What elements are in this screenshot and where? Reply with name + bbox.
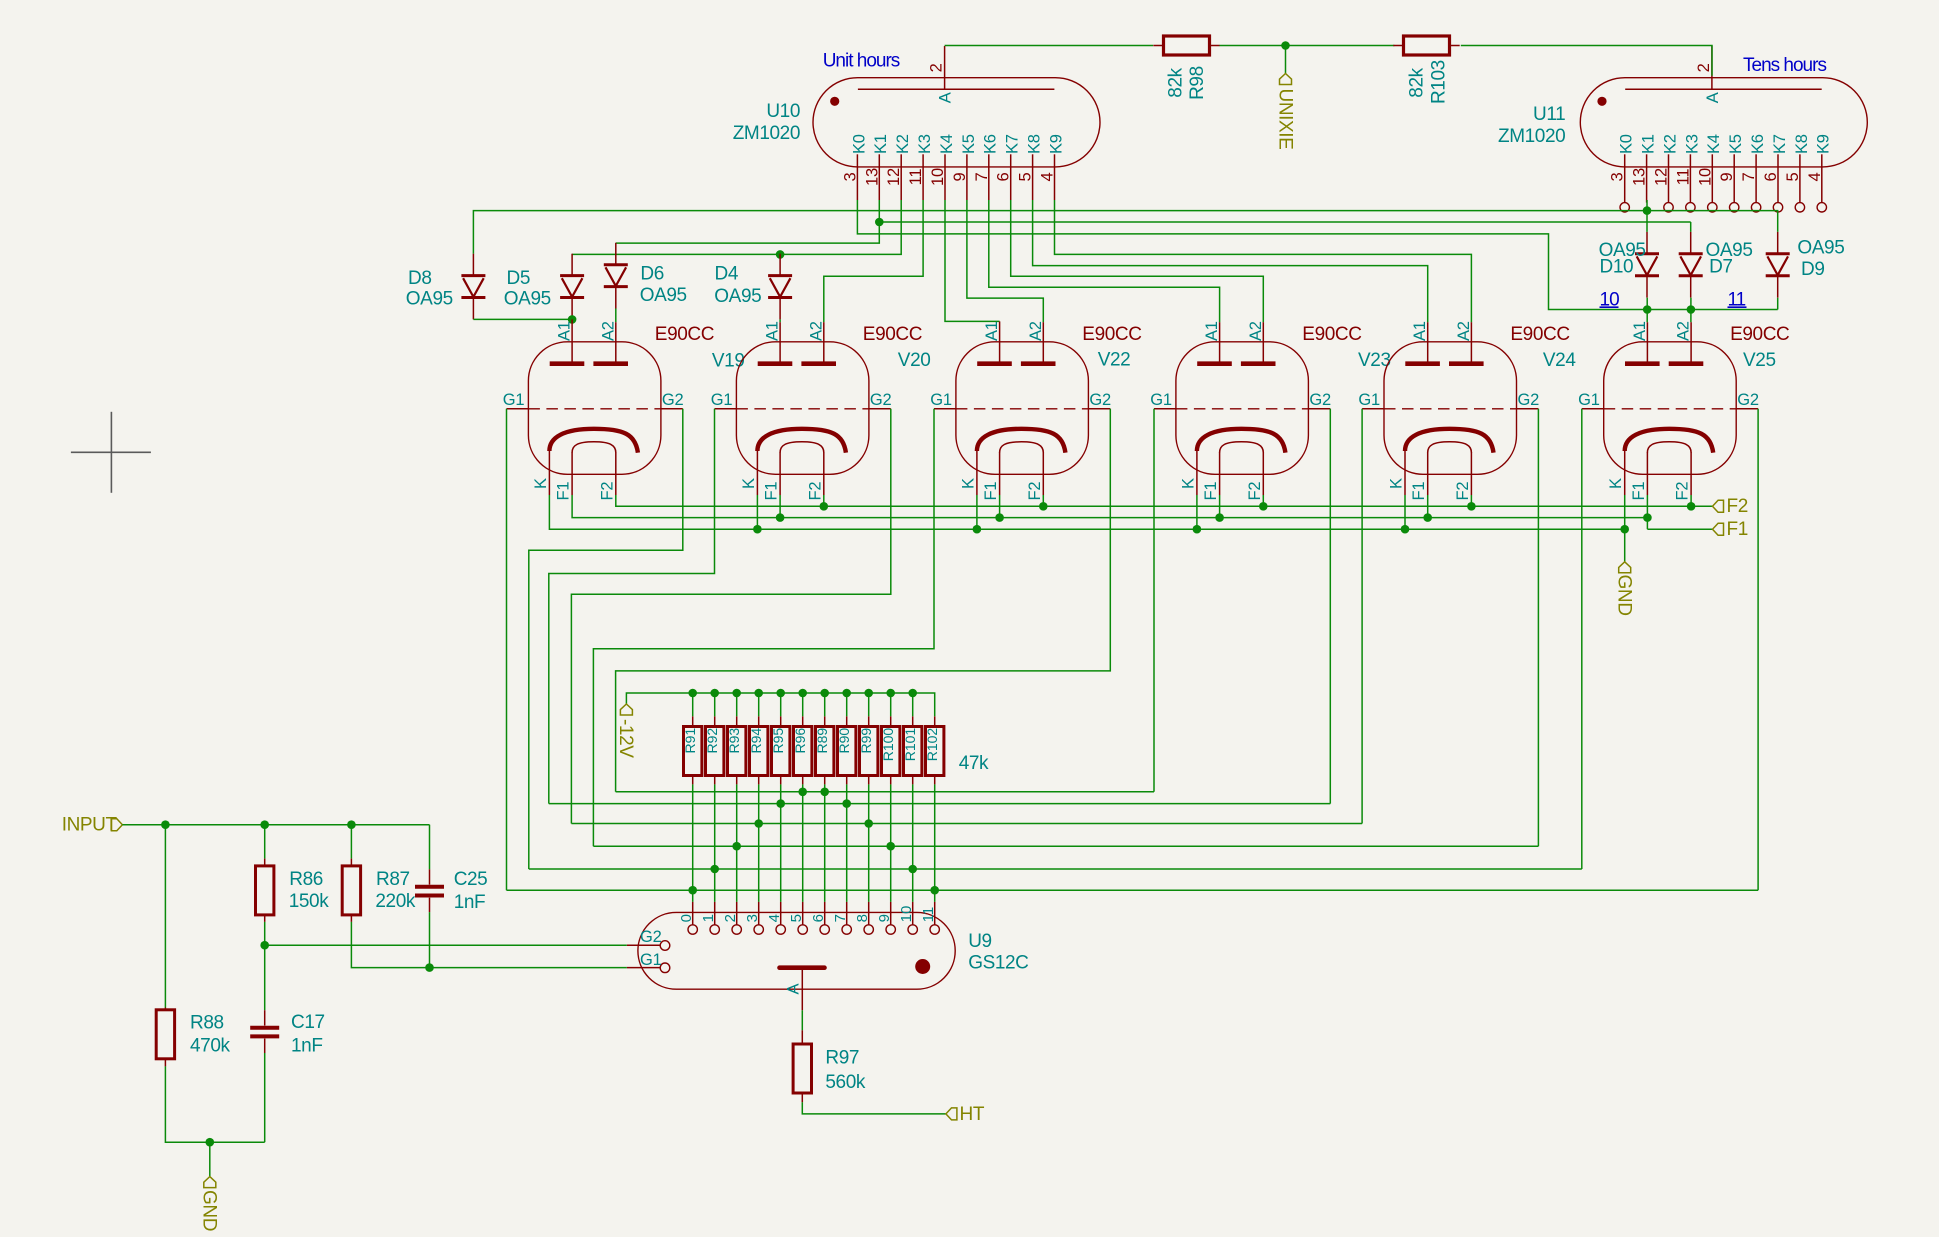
svg-text:G2: G2 bbox=[640, 928, 662, 946]
wire V20 G2 staircase to row C bbox=[571, 409, 890, 824]
wire resistor top stub bbox=[714, 693, 716, 716]
wire C17 bottom bbox=[264, 1053, 266, 1142]
wire resistor bottom to U9 pin bbox=[868, 784, 870, 902]
svg-text:R89: R89 bbox=[814, 728, 830, 754]
svg-text:V24: V24 bbox=[1543, 350, 1576, 371]
hierarchical label INPUT bbox=[111, 819, 122, 831]
svg-text:150k: 150k bbox=[289, 891, 330, 912]
junction row D R100 bbox=[886, 842, 895, 851]
wire resistor top stub bbox=[758, 693, 760, 716]
resistor R94 47k bbox=[750, 727, 768, 776]
wire resistor top stub bbox=[912, 693, 914, 716]
svg-text:K7: K7 bbox=[1004, 134, 1022, 154]
resistor R88 470k bbox=[156, 1010, 174, 1059]
svg-text:Tens hours: Tens hours bbox=[1743, 55, 1826, 76]
svg-text:D4: D4 bbox=[715, 264, 739, 285]
wire V23 G1 down to row A bbox=[1153, 409, 1155, 792]
wire down to C25 bbox=[429, 825, 431, 870]
svg-text:F1: F1 bbox=[763, 482, 781, 501]
svg-text:R103: R103 bbox=[1428, 60, 1449, 104]
svg-text:1: 1 bbox=[700, 914, 717, 922]
svg-text:A: A bbox=[1704, 92, 1722, 103]
svg-text:A1: A1 bbox=[983, 321, 1001, 341]
wire U10 K5 to V22 A2 bbox=[967, 200, 1043, 322]
svg-text:F2: F2 bbox=[1727, 496, 1748, 517]
nixie tube U11 ZM1020 "Tens hours" bbox=[1580, 46, 1867, 212]
svg-text:E90CC: E90CC bbox=[1730, 324, 1789, 345]
svg-text:K8: K8 bbox=[1793, 134, 1811, 154]
wire resistor top stub bbox=[846, 693, 848, 716]
hierarchical label GND (right) bbox=[1619, 562, 1631, 573]
svg-text:E90CC: E90CC bbox=[863, 324, 922, 345]
wire V24 K stub bbox=[1404, 495, 1406, 529]
svg-text:G2: G2 bbox=[1518, 391, 1540, 409]
junction row A R89 bbox=[820, 788, 829, 797]
wire R103 to U11 anode bbox=[1461, 46, 1712, 76]
svg-text:D10: D10 bbox=[1600, 257, 1634, 278]
resistor R98 82k bbox=[1164, 36, 1210, 55]
resistor R96 47k bbox=[794, 727, 812, 776]
svg-text:D7: D7 bbox=[1709, 257, 1733, 278]
wire resistor top stub bbox=[736, 693, 738, 716]
svg-text:R100: R100 bbox=[880, 728, 896, 762]
wire R97 to HT bbox=[802, 1102, 946, 1114]
svg-text:F2: F2 bbox=[1674, 482, 1692, 501]
svg-text:A1: A1 bbox=[1411, 321, 1429, 341]
junction V24 F2 bbox=[1467, 502, 1476, 511]
svg-text:A2: A2 bbox=[599, 321, 617, 341]
wire V20 F1 stub bbox=[779, 495, 781, 518]
svg-text:A1: A1 bbox=[764, 321, 782, 341]
svg-text:K0: K0 bbox=[1618, 134, 1636, 154]
junction D4 anode on K2 net bbox=[776, 250, 785, 259]
junction V23 F2 bbox=[1259, 502, 1268, 511]
wire resistor bottom to U9 pin bbox=[934, 784, 936, 902]
wire INPUT down to R88 bbox=[164, 825, 166, 1008]
wire R87 bottom to U9 G1 bbox=[351, 922, 626, 968]
svg-text:470k: 470k bbox=[190, 1036, 231, 1057]
junction V22 F1 bbox=[995, 513, 1004, 522]
wire V25 F2 stub bbox=[1690, 495, 1692, 506]
wire V24 F2 stub bbox=[1470, 495, 1472, 506]
resistor R101 47k bbox=[904, 727, 922, 776]
svg-text:1nF: 1nF bbox=[291, 1036, 323, 1057]
triode V25 E90CC bbox=[1578, 321, 1759, 500]
svg-text:F1: F1 bbox=[982, 482, 1000, 501]
junction D7 cathode / V25 A2 bbox=[1687, 305, 1696, 314]
svg-text:R96: R96 bbox=[792, 728, 808, 754]
svg-text:11: 11 bbox=[1674, 169, 1692, 186]
svg-text:4: 4 bbox=[1039, 172, 1057, 181]
svg-text:A2: A2 bbox=[807, 321, 825, 341]
wire R98 to R103 bbox=[1220, 45, 1395, 47]
svg-text:G2: G2 bbox=[1089, 391, 1111, 409]
svg-text:3: 3 bbox=[1609, 172, 1627, 181]
junction row E R101 bbox=[908, 865, 917, 874]
wire U10 K3 to V20 A2 bbox=[824, 200, 923, 322]
wire V25 G1 down to row E bbox=[1581, 409, 1583, 869]
junction R86/C17/G2 bbox=[260, 941, 269, 950]
junction row C R94 bbox=[754, 819, 763, 828]
svg-text:6: 6 bbox=[810, 914, 827, 922]
svg-text:K5: K5 bbox=[1727, 134, 1745, 154]
triode V23 E90CC bbox=[1150, 321, 1331, 500]
svg-text:UNIXIE: UNIXIE bbox=[1274, 89, 1295, 150]
svg-text:82k: 82k bbox=[1165, 67, 1186, 97]
triode V24 E90CC bbox=[1358, 321, 1539, 500]
hierarchical label GND bbox=[204, 1177, 216, 1188]
svg-text:R95: R95 bbox=[770, 728, 786, 754]
wire D10 cathode to V25 A1 bbox=[1646, 298, 1648, 323]
svg-text:F2: F2 bbox=[1026, 482, 1044, 501]
svg-text:K2: K2 bbox=[894, 134, 912, 154]
wire resistor bottom to U9 pin bbox=[890, 784, 892, 902]
svg-text:560k: 560k bbox=[825, 1072, 866, 1093]
wire resistor bottom to U9 pin bbox=[714, 784, 716, 902]
wire U10 K2 to D5 bbox=[572, 200, 901, 254]
wire U10 anode to R98 bbox=[945, 45, 1154, 47]
svg-text:OA95: OA95 bbox=[714, 286, 761, 307]
resistor R100 47k bbox=[882, 727, 900, 776]
nixie tube U10 ZM1020 "Unit hours" bbox=[813, 46, 1100, 200]
svg-text:R101: R101 bbox=[902, 728, 918, 762]
svg-text:G1: G1 bbox=[1358, 391, 1380, 409]
wire U10 K1 to D6 bbox=[616, 200, 880, 243]
svg-text:C17: C17 bbox=[291, 1012, 325, 1033]
svg-text:K4: K4 bbox=[938, 134, 956, 154]
resistor R93 47k bbox=[728, 727, 746, 776]
svg-text:R88: R88 bbox=[190, 1013, 224, 1034]
wire K1 net to D7 bbox=[879, 221, 1690, 223]
svg-text:R94: R94 bbox=[748, 728, 764, 754]
triode V22 E90CC bbox=[930, 321, 1111, 500]
wire V19 G1 down to row F bbox=[506, 409, 508, 890]
wire row A bbox=[616, 791, 1154, 793]
svg-text:R90: R90 bbox=[836, 728, 852, 754]
svg-text:D5: D5 bbox=[507, 268, 531, 289]
svg-text:U9: U9 bbox=[968, 931, 992, 952]
junction V24 K bbox=[1401, 525, 1410, 534]
svg-text:1nF: 1nF bbox=[454, 892, 486, 913]
wire U10 K6 to V23 A1 bbox=[989, 200, 1220, 322]
resistor R86 150k bbox=[256, 866, 274, 915]
svg-text:K4: K4 bbox=[1705, 134, 1723, 154]
junction resistor top bbox=[864, 689, 873, 698]
wire resistor top stub bbox=[780, 693, 782, 716]
junction INPUT R86 bbox=[260, 820, 269, 829]
diode D4 OA95 bbox=[768, 276, 792, 298]
wire V22 G2 staircase to row A bbox=[616, 409, 1111, 792]
svg-text:A1: A1 bbox=[1203, 321, 1221, 341]
svg-text:10: 10 bbox=[1696, 168, 1714, 186]
junction row E R92 bbox=[710, 865, 719, 874]
svg-text:E90CC: E90CC bbox=[1082, 324, 1141, 345]
wire D9 cathode stub bbox=[1777, 298, 1779, 310]
junction V25 F2 bbox=[1687, 502, 1696, 511]
hierarchical label -12V bbox=[620, 704, 632, 715]
junction UNIXIE node bbox=[1281, 41, 1290, 50]
svg-text:3: 3 bbox=[744, 914, 761, 922]
svg-text:E90CC: E90CC bbox=[655, 324, 714, 345]
wire V25 K stub to GND bbox=[1624, 495, 1626, 562]
svg-text:K: K bbox=[1607, 478, 1625, 489]
wire V24 G1 down to row C bbox=[1361, 409, 1363, 824]
svg-text:U10: U10 bbox=[766, 101, 800, 122]
wire U10 K9 to V24 A2 bbox=[1055, 200, 1472, 322]
svg-text:K2: K2 bbox=[1661, 134, 1679, 154]
junction V23 K bbox=[1193, 525, 1202, 534]
wire resistor bottom to U9 pin bbox=[802, 784, 804, 902]
svg-text:K9: K9 bbox=[1047, 134, 1065, 154]
junction resistor top bbox=[776, 689, 785, 698]
wire row C bbox=[571, 823, 1362, 825]
svg-text:F2: F2 bbox=[598, 482, 616, 501]
junction D10 cathode / V25 A1 bbox=[1643, 305, 1652, 314]
svg-text:12: 12 bbox=[1653, 168, 1671, 186]
svg-text:A2: A2 bbox=[1675, 321, 1693, 341]
junction row F R91 bbox=[688, 886, 697, 895]
resistor R97 560k bbox=[793, 1044, 811, 1093]
svg-text:K6: K6 bbox=[982, 134, 1000, 154]
svg-text:10: 10 bbox=[898, 906, 915, 923]
svg-text:A: A bbox=[937, 92, 955, 103]
wire row E bbox=[529, 868, 1582, 870]
junction resistor top bbox=[820, 689, 829, 698]
junction resistor top bbox=[710, 689, 719, 698]
junction GND node bbox=[206, 1138, 215, 1147]
sheet crosshair mark bbox=[71, 412, 151, 493]
svg-text:F1: F1 bbox=[1202, 482, 1220, 501]
junction V20 F1 bbox=[776, 513, 785, 522]
wire GND stub bbox=[209, 1142, 211, 1176]
wire U10 K4 to V22 A1 bbox=[945, 200, 1000, 321]
resistor R92 47k bbox=[706, 727, 724, 776]
svg-text:K7: K7 bbox=[1771, 134, 1789, 154]
wire U10 K8 to V24 A1 bbox=[1033, 200, 1428, 322]
wire V20 K stub bbox=[756, 495, 758, 529]
junction resistor top bbox=[688, 689, 697, 698]
svg-text:7: 7 bbox=[832, 914, 849, 922]
svg-text:G1: G1 bbox=[711, 391, 733, 409]
svg-text:K1: K1 bbox=[1640, 134, 1658, 154]
svg-text:F1: F1 bbox=[1630, 482, 1648, 501]
wire D8/U11-K1/D9 net bbox=[473, 211, 1777, 254]
wire V25 F1 stub to label row bbox=[1646, 495, 1648, 529]
wire F2 bus bbox=[616, 495, 1713, 506]
svg-text:13: 13 bbox=[863, 168, 881, 186]
svg-text:5: 5 bbox=[1017, 172, 1035, 181]
svg-text:4: 4 bbox=[766, 914, 783, 922]
wire F1 bus bbox=[572, 495, 1647, 518]
junction resistor top bbox=[754, 689, 763, 698]
junction row F R102 bbox=[930, 886, 939, 895]
resistor R91 47k bbox=[684, 727, 702, 776]
svg-text:11: 11 bbox=[920, 907, 937, 923]
wire row B bbox=[549, 803, 1331, 805]
wire V24 F1 stub bbox=[1427, 495, 1429, 518]
wire INPUT down to R86 bbox=[264, 825, 266, 859]
svg-text:U11: U11 bbox=[1533, 104, 1565, 125]
wire resistor top stub bbox=[890, 693, 892, 716]
svg-text:K3: K3 bbox=[1683, 134, 1701, 154]
wire V22 F1 stub bbox=[999, 495, 1001, 518]
svg-text:2: 2 bbox=[722, 914, 739, 922]
hierarchical label HT bbox=[946, 1108, 957, 1120]
wire resistor bottom to U9 pin bbox=[846, 784, 848, 902]
svg-text:A2: A2 bbox=[1027, 321, 1045, 341]
wire U11 K1 to D10 bbox=[1646, 200, 1648, 232]
wire resistor top stub bbox=[824, 693, 826, 716]
svg-text:7: 7 bbox=[973, 172, 991, 181]
hierarchical label UNIXIE bbox=[1280, 74, 1292, 85]
svg-text:5: 5 bbox=[788, 914, 805, 922]
wire D8 cathode to V19 A1 bbox=[473, 318, 572, 320]
junction resistor top bbox=[908, 689, 917, 698]
svg-text:HT: HT bbox=[960, 1104, 985, 1125]
wire V23 K stub bbox=[1196, 495, 1198, 529]
wire V23 F1 stub bbox=[1219, 495, 1221, 518]
junction resistor top bbox=[886, 689, 895, 698]
junction V19 A1 / D5 bbox=[568, 315, 577, 324]
svg-text:G1: G1 bbox=[1578, 391, 1600, 409]
resistor R102 47k bbox=[926, 727, 944, 776]
svg-text:0: 0 bbox=[678, 914, 695, 922]
svg-text:G1: G1 bbox=[503, 391, 525, 409]
wire INPUT down to R87 bbox=[350, 825, 352, 859]
junction row B R95 bbox=[776, 799, 785, 808]
svg-text:GS12C: GS12C bbox=[968, 953, 1028, 974]
svg-text:Unit hours: Unit hours bbox=[823, 51, 900, 72]
wire D7 anode stub bbox=[1690, 222, 1692, 232]
svg-text:A2: A2 bbox=[1247, 321, 1265, 341]
wire V19 G2 staircase to row E bbox=[529, 409, 683, 869]
junction V25 F1 bbox=[1643, 513, 1652, 522]
svg-text:-12V: -12V bbox=[615, 719, 636, 758]
svg-text:K: K bbox=[1388, 478, 1406, 489]
resistor R89 47k bbox=[816, 727, 834, 776]
wire resistor bottom to U9 pin bbox=[824, 784, 826, 902]
svg-text:K6: K6 bbox=[1749, 134, 1767, 154]
svg-text:R102: R102 bbox=[924, 728, 940, 762]
wire V25 G2 down to row F bbox=[1757, 409, 1759, 890]
svg-text:K0: K0 bbox=[850, 134, 868, 154]
svg-text:GND: GND bbox=[1613, 575, 1634, 616]
svg-text:K: K bbox=[959, 478, 977, 489]
resistor R87 220k bbox=[342, 866, 360, 915]
svg-text:K: K bbox=[1179, 478, 1197, 489]
svg-text:G1: G1 bbox=[930, 391, 952, 409]
svg-text:F1: F1 bbox=[1410, 482, 1428, 501]
svg-text:K1: K1 bbox=[872, 134, 890, 154]
wire U9 A to R97 bbox=[801, 1010, 803, 1030]
wire to F1 label bbox=[1647, 528, 1712, 530]
junction row A R96 bbox=[798, 788, 807, 797]
junction V20 K bbox=[753, 525, 762, 534]
resistor R90 47k bbox=[838, 727, 856, 776]
wire resistor bottom to U9 pin bbox=[736, 784, 738, 902]
svg-text:F1: F1 bbox=[555, 482, 573, 501]
svg-text:K5: K5 bbox=[960, 134, 978, 154]
svg-text:9: 9 bbox=[1718, 172, 1736, 181]
svg-text:4: 4 bbox=[1806, 172, 1824, 181]
wire D6 cathode to V19 A2 bbox=[615, 309, 617, 323]
wire V23 F2 stub bbox=[1262, 495, 1264, 506]
wire to U9 G2 bbox=[265, 944, 627, 946]
diode D8 OA95 bbox=[461, 276, 485, 298]
wire U10 K7 to V23 A2 bbox=[1011, 200, 1264, 322]
svg-text:OA95: OA95 bbox=[504, 289, 551, 310]
svg-text:3: 3 bbox=[841, 172, 859, 181]
junction U10 K1 net bbox=[875, 218, 884, 227]
svg-text:V19: V19 bbox=[712, 351, 745, 372]
wire resistor bottom to U9 pin bbox=[758, 784, 760, 902]
junction resistor top bbox=[842, 689, 851, 698]
svg-text:82k: 82k bbox=[1407, 67, 1428, 97]
svg-text:F1: F1 bbox=[1727, 519, 1748, 540]
svg-text:5: 5 bbox=[1784, 172, 1802, 181]
svg-text:A1: A1 bbox=[556, 321, 574, 341]
junction resistor top bbox=[798, 689, 807, 698]
svg-text:V20: V20 bbox=[898, 350, 931, 371]
svg-text:G1: G1 bbox=[1150, 391, 1172, 409]
junction V24 F1 bbox=[1423, 513, 1432, 522]
svg-text:R87: R87 bbox=[376, 869, 410, 890]
svg-text:INPUT: INPUT bbox=[62, 815, 118, 836]
svg-text:12: 12 bbox=[885, 168, 903, 186]
junction V23 F1 bbox=[1215, 513, 1224, 522]
svg-text:9: 9 bbox=[951, 172, 969, 181]
svg-text:10: 10 bbox=[929, 168, 947, 186]
svg-text:K3: K3 bbox=[916, 134, 934, 154]
wire U10 K0 to diode row net 10/11 bbox=[857, 200, 1777, 310]
svg-text:G1: G1 bbox=[640, 951, 662, 969]
svg-text:D6: D6 bbox=[640, 263, 664, 284]
wire V23 G2 down to row B bbox=[1329, 409, 1331, 804]
svg-text:F2: F2 bbox=[1454, 482, 1472, 501]
svg-text:2: 2 bbox=[928, 63, 946, 72]
svg-text:V25: V25 bbox=[1743, 350, 1776, 371]
wire resistor bottom to U9 pin bbox=[780, 784, 782, 902]
wire row F bbox=[507, 889, 1759, 891]
resistor R99 47k bbox=[860, 727, 878, 776]
svg-text:R98: R98 bbox=[1187, 66, 1208, 100]
svg-text:GND: GND bbox=[199, 1190, 220, 1231]
wire D7 cathode to V25 A2 bbox=[1690, 298, 1692, 323]
svg-text:E90CC: E90CC bbox=[1510, 324, 1569, 345]
diode D7 OA95 bbox=[1679, 254, 1703, 276]
svg-text:G2: G2 bbox=[870, 391, 892, 409]
diode D10 OA95 bbox=[1635, 254, 1659, 276]
hierarchical label F2 bbox=[1713, 500, 1724, 512]
junction V22 F2 bbox=[1039, 502, 1048, 511]
triode V20 E90CC bbox=[711, 321, 892, 500]
svg-text:F2: F2 bbox=[1246, 482, 1264, 501]
resistor R95 47k bbox=[772, 727, 790, 776]
svg-text:K: K bbox=[740, 478, 758, 489]
diode D5 OA95 bbox=[560, 276, 584, 298]
svg-text:A2: A2 bbox=[1455, 321, 1473, 341]
wire resistor top stub bbox=[868, 693, 870, 716]
svg-text:R99: R99 bbox=[858, 728, 874, 754]
svg-text:F2: F2 bbox=[806, 482, 824, 501]
svg-text:R97: R97 bbox=[825, 1048, 859, 1069]
wire V20 F2 stub bbox=[823, 495, 825, 506]
tube U9 GS12C bbox=[627, 902, 955, 1010]
junction C25 bottom / G1 bbox=[425, 963, 434, 972]
junction INPUT R88 bbox=[161, 820, 170, 829]
junction V25 K bbox=[1620, 525, 1629, 534]
svg-text:6: 6 bbox=[1762, 172, 1780, 181]
